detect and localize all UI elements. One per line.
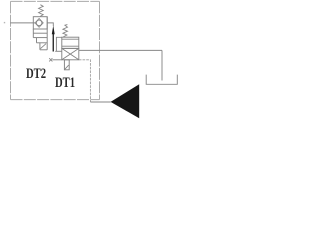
spring of valve DT2: [39, 5, 44, 17]
wire from check valve to arrow riser: [47, 23, 53, 26]
valve DT2 body bands: [33, 32, 47, 34]
check valve envelope box: [33, 17, 47, 29]
outlet line to tank: [79, 49, 162, 51]
label DT2: [26, 65, 46, 83]
wire riser into valve DT1 inlet: [56, 37, 61, 51]
spring of valve DT1: [63, 25, 68, 37]
black flow arrow (up): [52, 26, 55, 35]
valve DT2 bottom box with drain diagonal: [39, 43, 41, 50]
valve DT1 top box: [62, 37, 79, 48]
tank down pipe: [161, 50, 163, 80]
check valve diamond: [35, 19, 43, 28]
node stub dot left of frame: [4, 22, 5, 23]
tank symbol: [146, 75, 177, 85]
enclosure frame (dashed subsystem boundary): [11, 0, 100, 2]
check valve ball circle: [36, 20, 42, 26]
valve DT2 step box: [36, 38, 38, 43]
label DT1: [55, 74, 75, 92]
solid pilot triangle: [111, 84, 140, 118]
blocked port line with x mark: [52, 59, 61, 61]
drain line from DT1 to pilot triangle: [79, 60, 91, 102]
wire feed to pilot triangle: [90, 101, 110, 103]
wire inlet to check valve: [10, 22, 35, 24]
valve DT1 closed position box with X: [62, 48, 79, 59]
wire arrow base to DT1 inlet: [55, 50, 62, 52]
tank stub under valve DT1: [64, 60, 69, 70]
